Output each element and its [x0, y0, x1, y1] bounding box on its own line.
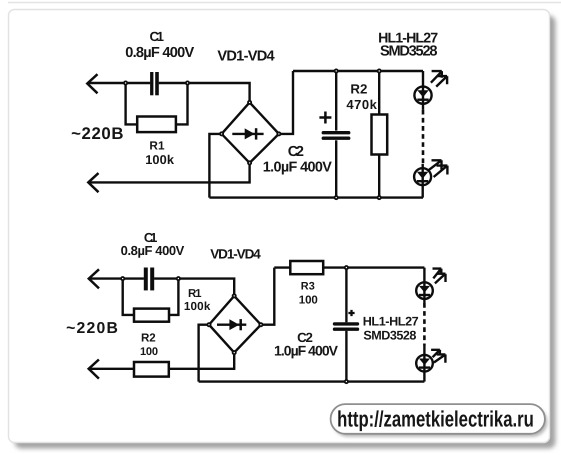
svg-text:1.0µF 400V: 1.0µF 400V	[263, 160, 332, 176]
svg-text:~220B: ~220B	[71, 124, 123, 143]
svg-text:SMD3528: SMD3528	[380, 44, 438, 60]
svg-text:~220B: ~220B	[66, 320, 118, 337]
svg-text:100k: 100k	[184, 300, 211, 313]
svg-text:R2: R2	[141, 332, 156, 345]
svg-text:470k: 470k	[346, 97, 377, 112]
svg-text:VD1-VD4: VD1-VD4	[210, 246, 261, 261]
svg-text:100k: 100k	[145, 152, 175, 167]
svg-text:1.0µF 400V: 1.0µF 400V	[274, 343, 339, 359]
svg-text:R1: R1	[149, 138, 165, 152]
svg-text:0.8µF 400V: 0.8µF 400V	[125, 45, 194, 61]
svg-text:0.8µF 400V: 0.8µF 400V	[121, 243, 185, 258]
svg-text:SMD3528: SMD3528	[363, 328, 416, 342]
svg-text:HL1-HL27: HL1-HL27	[363, 314, 419, 328]
svg-text:C1: C1	[149, 29, 164, 44]
svg-text:R3: R3	[301, 280, 315, 292]
svg-text:100: 100	[140, 346, 158, 358]
svg-text:C2: C2	[288, 144, 304, 160]
svg-text:http://zametkielectrika.ru: http://zametkielectrika.ru	[337, 407, 534, 432]
svg-text:VD1-VD4: VD1-VD4	[217, 48, 275, 64]
svg-text:R1: R1	[188, 288, 202, 300]
svg-text:100: 100	[299, 295, 318, 307]
svg-text:R2: R2	[350, 82, 367, 97]
